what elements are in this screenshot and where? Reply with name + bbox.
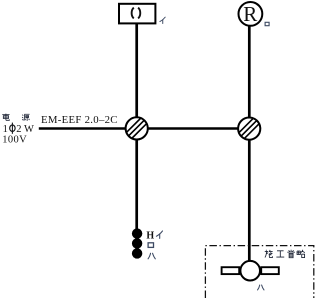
svg-text:EM-EEF 2.0–2C: EM-EEF 2.0–2C xyxy=(41,114,118,126)
junction box right (hatched circle) xyxy=(238,118,260,140)
fluorescent lamp ハ (circle with side boxes) xyxy=(222,261,279,281)
label ロ for relay xyxy=(265,22,269,25)
wire from power source to left junction box xyxy=(39,127,126,130)
lamp fixture box イ (rectangle with parentheses) xyxy=(119,4,155,24)
wire from lamp box イ down to left junction box xyxy=(135,24,138,117)
junction box left (hatched circle) xyxy=(126,117,148,139)
switch ロ (middle dot) xyxy=(132,238,142,248)
wire between left and right junction boxes xyxy=(147,127,239,130)
switch Hイ (top dot) xyxy=(132,228,142,238)
svg-text:100V: 100V xyxy=(2,134,27,145)
label イ for top switch xyxy=(156,231,162,238)
remote-control relay R xyxy=(239,2,263,26)
svg-text:R: R xyxy=(243,2,257,26)
label 施工省略 xyxy=(265,250,305,258)
label イ for lamp box xyxy=(160,17,165,23)
wire from left junction box down to switches xyxy=(135,140,138,230)
label ロ for middle switch xyxy=(148,243,153,248)
wire from right junction box down to fluorescent lamp xyxy=(248,140,251,263)
wire from relay R down to right junction box xyxy=(248,26,251,117)
label ハ for bottom switch xyxy=(148,253,155,258)
label ハ for fluorescent lamp xyxy=(258,285,264,290)
svg-text:1: 1 xyxy=(3,124,8,135)
construction-omitted dash-dot box xyxy=(205,246,313,298)
svg-text:2W: 2W xyxy=(16,124,34,135)
switch ハ (bottom dot) xyxy=(132,248,142,258)
power source label 電 源 xyxy=(2,114,29,121)
svg-text:H: H xyxy=(146,230,154,241)
